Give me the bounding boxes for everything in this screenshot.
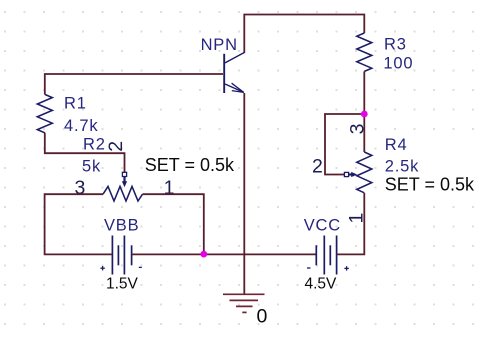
svg-text:NPN: NPN (201, 36, 238, 54)
svg-text:100: 100 (383, 55, 413, 73)
svg-text:SET = 0.5k: SET = 0.5k (385, 174, 475, 194)
potentiometer R2 wiper arrow (122, 172, 127, 187)
wire VCC plus to R4 pin1 (337, 193, 365, 254)
junction node VBB/R2/ground rail (200, 251, 207, 258)
svg-text:SET = 0.5k: SET = 0.5k (145, 155, 235, 175)
svg-text:0: 0 (257, 305, 268, 327)
wire junction loop to R4 wiper (325, 114, 364, 175)
svg-text:5k: 5k (82, 157, 101, 175)
white box behind R4 labels (383, 136, 479, 192)
svg-text:2: 2 (312, 156, 323, 178)
svg-text:R3: R3 (384, 35, 407, 53)
resistor R1 (37, 94, 52, 132)
potentiometer R4 wiper arrow (344, 172, 357, 177)
wire top rail collector to R3 (244, 15, 364, 54)
transistor Q1 NPN (224, 53, 244, 94)
svg-text:2: 2 (105, 141, 127, 152)
svg-text:VCC: VCC (304, 217, 341, 235)
wire R1 bottom to R2 wiper (45, 133, 125, 173)
wire R3 bottom to junction (363, 71, 365, 114)
svg-text:4.5V: 4.5V (305, 276, 338, 293)
ground symbol 0 (223, 294, 265, 312)
svg-text:3: 3 (75, 177, 86, 199)
wire R2 pin3 to VBB plus (45, 194, 112, 254)
svg-text:4.7k: 4.7k (64, 117, 98, 135)
svg-text:R1: R1 (64, 95, 87, 113)
battery VBB (100, 236, 141, 275)
wire R2 pin1 down to bottom rail (143, 194, 204, 254)
svg-text:3: 3 (347, 124, 369, 135)
junction node R3/R4 (361, 111, 368, 118)
resistor R3 (357, 33, 372, 71)
potentiometer R2 element (103, 186, 143, 201)
svg-text:1: 1 (346, 213, 368, 224)
wire emitter to ground (243, 93, 245, 294)
wire junction down to R4 pin3 (363, 114, 365, 152)
wire bottom rail VBB to VCC (132, 253, 317, 255)
svg-text:1: 1 (164, 177, 175, 199)
svg-text:R4: R4 (385, 136, 408, 154)
battery VCC (307, 236, 349, 275)
svg-text:R2: R2 (83, 136, 106, 154)
potentiometer R4 element (357, 152, 372, 193)
white box behind SET left (143, 155, 238, 173)
wire base from R1 top to transistor (45, 74, 223, 94)
svg-text:VBB: VBB (104, 217, 139, 235)
svg-text:1.5V: 1.5V (106, 276, 139, 293)
svg-text:2.5k: 2.5k (385, 157, 419, 175)
